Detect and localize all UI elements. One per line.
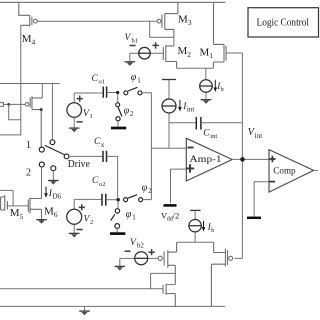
- Vdd/2 bar under phi1: [110, 232, 125, 235]
- V2 source: [73, 199, 75, 233]
- svg-text:φ: φ: [126, 209, 132, 220]
- label V1: [83, 109, 93, 120]
- wire Co1 to junction: [107, 92, 118, 94]
- svg-text:Drive: Drive: [68, 159, 91, 170]
- svg-text:1: 1: [209, 51, 213, 60]
- capacitor Co2: [102, 194, 106, 206]
- M5-M6 gate wire: [7, 205, 28, 207]
- wire M4 drain down and out left: [0, 25, 21, 135]
- svg-text:/2: /2: [173, 211, 180, 221]
- svg-text:o2: o2: [99, 181, 106, 188]
- Comp output stub: [314, 169, 318, 171]
- node: [116, 91, 119, 94]
- minus sign Amp-1: [188, 147, 194, 149]
- transistor M6: [28, 198, 41, 220]
- svg-text:Logic Control: Logic Control: [257, 18, 310, 29]
- transistor Ta (PMOS, bias): [158, 242, 177, 284]
- label M3: [178, 13, 192, 27]
- capacitor Cx: [103, 151, 107, 162]
- svg-text:φ: φ: [142, 182, 148, 193]
- capacitor Co1: [103, 87, 106, 98]
- ground on bottom rail: [84, 306, 86, 311]
- svg-text:1: 1: [26, 140, 31, 151]
- svg-text:b2: b2: [137, 242, 145, 250]
- switch arm to Drive: [45, 145, 65, 154]
- transistor M3: [157, 2, 178, 37]
- bottom ground rail: [0, 305, 225, 307]
- contact B: [39, 147, 44, 152]
- svg-text:C: C: [203, 128, 210, 138]
- wire D down to M6 drain: [41, 167, 43, 199]
- svg-text:b: b: [221, 86, 224, 93]
- label Ib bottom: [207, 222, 215, 234]
- label M5: [10, 207, 24, 221]
- current source Ib (bottom): [190, 209, 200, 211]
- svg-text:D6: D6: [53, 193, 62, 201]
- wire upper-left rail: [0, 83, 60, 85]
- svg-text:M: M: [178, 13, 188, 25]
- minus sign V1: [77, 121, 83, 123]
- svg-text:Comp: Comp: [273, 167, 296, 177]
- arrow Ib top: [214, 80, 216, 88]
- comparator Comp: [269, 150, 314, 193]
- wire to Mx drain: [41, 84, 43, 98]
- node Vint: [240, 157, 245, 162]
- VDD top rail: [0, 1, 225, 3]
- svg-text:C: C: [92, 74, 99, 84]
- svg-text:int: int: [210, 133, 217, 140]
- ground under Vb1: [125, 61, 136, 63]
- node: [117, 198, 120, 201]
- label Vb1: [125, 33, 139, 44]
- transistor Tc (PMOS right, bias): [211, 242, 232, 306]
- label M1: [200, 46, 214, 60]
- Vdd/2 bar under phi2: [111, 127, 126, 130]
- transistor M5: [1, 195, 8, 211]
- svg-text:4: 4: [32, 38, 36, 47]
- input stub box at left edge: [0, 103, 4, 107]
- gate rail to left edge: [0, 288, 163, 290]
- contact D: [39, 162, 44, 167]
- Logic Control box: [248, 8, 319, 37]
- svg-text:2: 2: [130, 110, 134, 118]
- svg-text:1: 1: [90, 113, 93, 120]
- Vb2 source: [120, 258, 158, 266]
- label ID6: [48, 189, 62, 201]
- V1 source: [73, 93, 75, 128]
- svg-text:M: M: [200, 46, 210, 58]
- label Cx: [94, 137, 105, 149]
- svg-text:3: 3: [188, 18, 192, 27]
- wire from gate node down to M4 drain line: [9, 104, 21, 119]
- svg-text:2: 2: [26, 168, 31, 179]
- transistor M2: [163, 45, 176, 68]
- minus sign V2: [77, 229, 83, 231]
- summing node wire to Amp-: [151, 147, 186, 149]
- svg-text:M: M: [22, 33, 32, 45]
- label phi1 bottom: [126, 209, 136, 222]
- label Co2: [92, 176, 106, 188]
- minus sign Comp: [269, 181, 275, 183]
- switch phi2 (vertical under node): [117, 94, 119, 103]
- label Vb2: [130, 238, 144, 250]
- svg-text:int: int: [255, 132, 262, 140]
- wire Drive to Cx: [69, 155, 103, 157]
- svg-text:M: M: [44, 205, 54, 217]
- wire M4 gate to M3 gate: [37, 20, 157, 22]
- Tb drain link: [166, 284, 175, 286]
- svg-text:φ: φ: [124, 106, 130, 117]
- svg-text:6: 6: [54, 210, 58, 219]
- ground under V2: [69, 232, 80, 234]
- wire V1 top to Co1: [74, 92, 103, 94]
- svg-text:M: M: [178, 45, 188, 57]
- plus sign Vb1: [152, 42, 158, 48]
- wire gate of Mx from left edge: [4, 103, 26, 105]
- wire V2 top to Co2: [74, 198, 102, 200]
- svg-text:2: 2: [148, 187, 152, 195]
- switch phi1 (top horizontal): [124, 87, 142, 95]
- wire E down to ground: [52, 171, 54, 180]
- svg-text:2: 2: [187, 50, 191, 59]
- svg-text:b1: b1: [132, 37, 139, 44]
- capacitor Cint: [169, 122, 196, 124]
- svg-text:M: M: [10, 207, 20, 219]
- svg-text:1: 1: [137, 76, 141, 84]
- ground under M6: [36, 219, 47, 221]
- label phi2: [124, 106, 134, 119]
- wire M3 drain to gate (diode connection): [150, 21, 174, 46]
- minus sign Vb1: [130, 45, 136, 47]
- svg-text:φ: φ: [131, 72, 137, 83]
- wire Co2 to junction: [106, 199, 118, 201]
- label V2: [84, 215, 94, 226]
- wire phi1 to summing column: [142, 93, 152, 200]
- transistor M1: [214, 2, 227, 67]
- wire phi2 to summing column: [143, 199, 152, 201]
- ground under V1: [69, 127, 80, 129]
- arrow ID6: [45, 187, 47, 194]
- svg-text:C: C: [92, 176, 99, 186]
- wire to switch contact A: [51, 84, 53, 140]
- label Cint: [203, 128, 217, 140]
- current source Iint: [162, 79, 176, 81]
- contact A: [50, 140, 55, 145]
- contact C (Drive pole): [64, 154, 69, 159]
- minus sign Vb2: [125, 250, 131, 252]
- plus sign V2: [79, 204, 85, 210]
- plus sign Vb2: [149, 249, 155, 255]
- node on Mx gate wire: [7, 103, 10, 106]
- label Vdd/2: [161, 211, 179, 223]
- Amp-1 output wire to Comp: [232, 158, 269, 160]
- ground under Vb2: [115, 265, 126, 267]
- junction dot Mx source: [40, 108, 43, 111]
- Comp - input wire to Vdd/2: [254, 182, 269, 217]
- label M2: [178, 45, 192, 59]
- svg-text:x: x: [101, 141, 105, 149]
- ground under E: [48, 180, 59, 182]
- op-amp Amp-1: [186, 138, 232, 181]
- label M6: [44, 205, 58, 219]
- switch phi2 (bottom horizontal): [124, 195, 143, 202]
- svg-text:o1: o1: [99, 78, 106, 85]
- transistor Tb: [163, 284, 175, 307]
- svg-text:5: 5: [20, 212, 24, 221]
- Vdd/2 bar under Amp-1: [164, 204, 177, 207]
- plus sign Amp-1: [186, 164, 194, 172]
- wire Cx right and down: [107, 156, 118, 199]
- transistor M4: [19, 2, 38, 26]
- plus sign V1: [77, 96, 83, 102]
- ground under Ib top: [201, 99, 212, 101]
- Amp-1 + input wire to Vdd/2: [171, 169, 187, 203]
- Vdd/2 bar under Comp: [247, 217, 261, 220]
- wire M2/M1 source rail: [177, 67, 214, 69]
- arrow Ib bottom: [203, 221, 205, 228]
- plus sign Comp: [269, 156, 275, 162]
- svg-text:Amp-1: Amp-1: [190, 155, 222, 165]
- contact E: [51, 166, 56, 171]
- wire M1 gate down to Vint node and Tc gate: [226, 53, 242, 258]
- wire bias row: [177, 241, 214, 243]
- svg-text:2: 2: [90, 219, 93, 226]
- tap Ta source to gate rail: [151, 273, 176, 288]
- arrow Iint: [179, 100, 181, 108]
- label M4: [22, 33, 36, 47]
- svg-text:b: b: [211, 227, 214, 234]
- svg-text:int: int: [187, 105, 194, 113]
- Vb1 source: [130, 53, 164, 61]
- svg-text:1: 1: [132, 213, 136, 221]
- label Co1: [92, 74, 106, 86]
- label Ib top: [216, 81, 224, 93]
- current source Ib (top): [205, 68, 207, 99]
- label phi1: [131, 72, 141, 85]
- label Iint: [182, 102, 194, 114]
- label phi2 bottom: [142, 182, 152, 195]
- label Vint: [248, 127, 263, 140]
- gate feed from left edge: [0, 190, 13, 206]
- transistor Mx (unlabeled PMOS left): [25, 96, 42, 147]
- switch phi1 (vertical, bottom): [117, 201, 119, 208]
